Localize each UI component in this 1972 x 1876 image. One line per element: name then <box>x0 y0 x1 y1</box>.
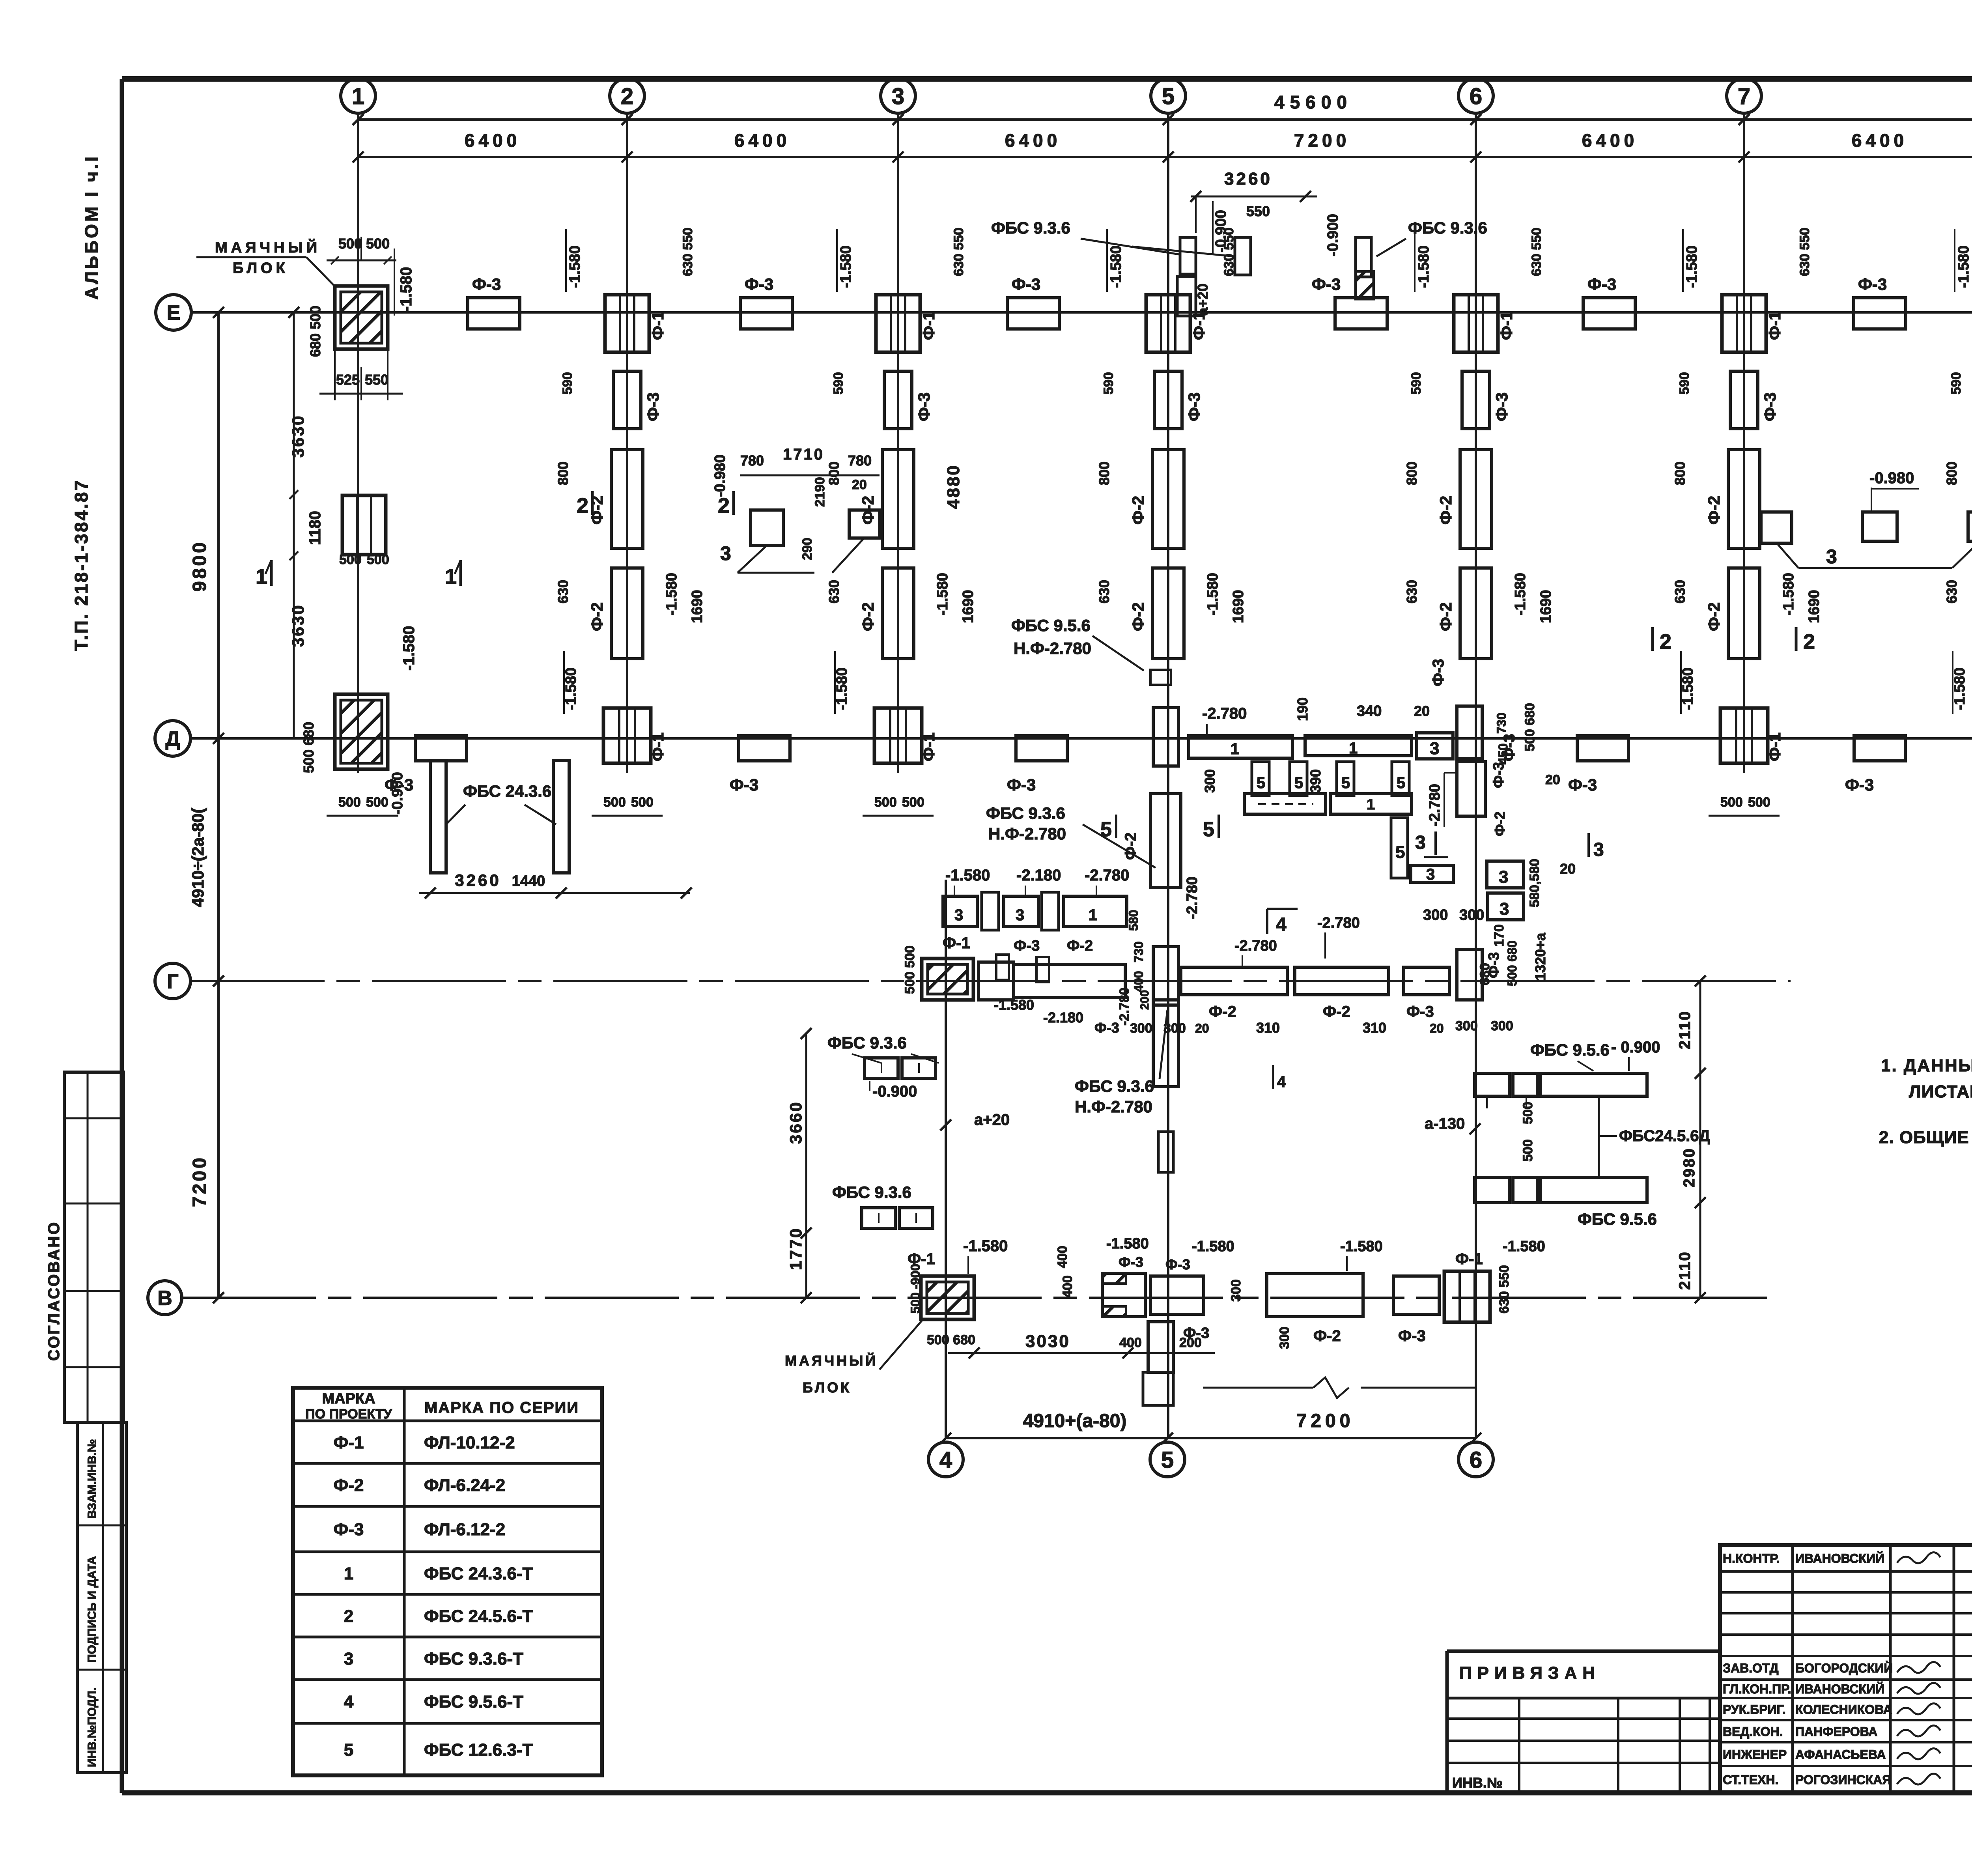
svg-text:730: 730 <box>1132 942 1146 962</box>
svg-text:2190: 2190 <box>812 477 827 507</box>
svg-text:а+20: а+20 <box>974 1111 1010 1129</box>
svg-text:200: 200 <box>1138 990 1151 1010</box>
svg-text:Ф-3: Ф-3 <box>1858 275 1887 293</box>
svg-text:3: 3 <box>1016 906 1024 924</box>
svg-text:-2.780: -2.780 <box>1234 938 1277 954</box>
svg-text:630 550: 630 550 <box>1529 228 1544 276</box>
svg-text:2: 2 <box>344 1607 353 1626</box>
svg-text:780: 780 <box>848 452 872 469</box>
svg-text:730: 730 <box>1494 713 1509 734</box>
svg-text:1: 1 <box>1089 906 1097 924</box>
svg-text:Ф-2: Ф-2 <box>588 602 606 631</box>
svg-text:390: 390 <box>1307 769 1324 793</box>
svg-text:190: 190 <box>1294 697 1311 721</box>
svg-text:-1.580: -1.580 <box>994 997 1034 1013</box>
svg-text:6400: 6400 <box>1852 130 1908 151</box>
svg-text:ИНВ.№: ИНВ.№ <box>1452 1775 1503 1791</box>
svg-text:Ф-3: Ф-3 <box>1165 1256 1190 1272</box>
svg-text:АЛЬБОМ I ч.I: АЛЬБОМ I ч.I <box>81 154 102 300</box>
svg-text:Ф-3: Ф-3 <box>1007 775 1036 794</box>
svg-text:- 0.900: - 0.900 <box>1611 1039 1660 1056</box>
svg-text:-1.580: -1.580 <box>834 667 850 710</box>
svg-text:310: 310 <box>1363 1020 1386 1036</box>
svg-text:590: 590 <box>1949 372 1964 394</box>
svg-text:Ф-1: Ф-1 <box>919 311 938 340</box>
svg-text:7200: 7200 <box>1294 130 1350 151</box>
svg-text:300: 300 <box>1202 769 1218 793</box>
svg-text:Ф-1: Ф-1 <box>1497 311 1516 340</box>
svg-text:а+20: а+20 <box>1195 284 1211 316</box>
svg-text:3260: 3260 <box>455 871 501 889</box>
svg-text:400: 400 <box>1055 1246 1070 1268</box>
svg-text:4910÷(2а-80(: 4910÷(2а-80( <box>189 808 207 907</box>
svg-text:300: 300 <box>1229 1279 1244 1302</box>
svg-text:ФБС 9.3.6: ФБС 9.3.6 <box>986 804 1065 822</box>
svg-text:Ф-3: Ф-3 <box>644 392 662 421</box>
svg-text:ФБС 9.5.6: ФБС 9.5.6 <box>1530 1041 1610 1059</box>
svg-text:450: 450 <box>1496 744 1510 764</box>
svg-text:500: 500 <box>631 795 654 810</box>
svg-text:ФБС 9.3.6-Т: ФБС 9.3.6-Т <box>424 1649 523 1669</box>
svg-text:-0.980: -0.980 <box>1869 469 1914 487</box>
svg-text:-2.780: -2.780 <box>1317 915 1360 931</box>
svg-text:300: 300 <box>1455 1018 1478 1033</box>
svg-text:20: 20 <box>1195 1021 1209 1035</box>
svg-text:Ф-3: Ф-3 <box>1587 275 1616 293</box>
svg-text:800: 800 <box>1672 462 1688 485</box>
svg-text:3: 3 <box>720 542 731 564</box>
svg-text:550: 550 <box>1246 203 1270 219</box>
svg-text:Ф-1: Ф-1 <box>919 732 938 761</box>
svg-text:Ф-3: Ф-3 <box>1761 392 1779 421</box>
svg-text:7: 7 <box>1738 84 1750 109</box>
svg-text:Ф-1: Ф-1 <box>1765 311 1784 340</box>
svg-text:550: 550 <box>365 372 388 388</box>
svg-text:-0.900: -0.900 <box>1325 214 1341 256</box>
svg-text:500 680: 500 680 <box>1522 703 1537 751</box>
svg-text:Н.Ф-2.780: Н.Ф-2.780 <box>1075 1097 1152 1116</box>
svg-text:400: 400 <box>1060 1275 1075 1298</box>
svg-text:300: 300 <box>1459 907 1484 923</box>
svg-text:Ф-2: Ф-2 <box>1209 1003 1236 1020</box>
svg-text:ЗАВ.ОТД: ЗАВ.ОТД <box>1723 1661 1779 1675</box>
svg-text:630: 630 <box>826 580 842 604</box>
svg-text:580,580: 580,580 <box>1527 859 1542 907</box>
svg-text:-2.780: -2.780 <box>1202 705 1247 722</box>
svg-text:-2.780: -2.780 <box>1117 988 1132 1026</box>
svg-text:Ф-3: Ф-3 <box>1012 275 1040 293</box>
svg-text:-1.580: -1.580 <box>1108 245 1124 288</box>
svg-text:5: 5 <box>1203 818 1214 841</box>
svg-text:МАЯЧНЫЙ: МАЯЧНЫЙ <box>215 238 321 256</box>
svg-text:20: 20 <box>852 477 867 492</box>
svg-text:800: 800 <box>1404 462 1420 485</box>
svg-text:ПАНФЕРОВА: ПАНФЕРОВА <box>1795 1725 1877 1739</box>
svg-text:РУК.БРИГ.: РУК.БРИГ. <box>1723 1702 1786 1717</box>
svg-text:1690: 1690 <box>960 590 977 623</box>
svg-text:ФБС 9.3.6: ФБС 9.3.6 <box>991 219 1070 237</box>
svg-text:500: 500 <box>1748 795 1770 810</box>
svg-text:БОГОРОДСКИЙ: БОГОРОДСКИЙ <box>1795 1661 1893 1675</box>
svg-text:Ф-3: Ф-3 <box>1490 762 1507 788</box>
svg-text:5: 5 <box>1294 774 1303 792</box>
svg-text:СОГЛАСОВАНО: СОГЛАСОВАНО <box>45 1221 63 1361</box>
svg-text:7200: 7200 <box>189 1155 210 1207</box>
svg-text:-1.580: -1.580 <box>398 267 415 312</box>
svg-text:3: 3 <box>1499 867 1508 887</box>
svg-text:1710: 1710 <box>783 446 824 463</box>
svg-text:Ф-2: Ф-2 <box>1436 602 1455 631</box>
svg-text:Ф-3: Ф-3 <box>915 392 933 421</box>
svg-text:6: 6 <box>1470 84 1482 109</box>
svg-text:-1.580: -1.580 <box>1192 1238 1234 1255</box>
svg-text:РОГОЗИНСКАЯ: РОГОЗИНСКАЯ <box>1795 1773 1891 1787</box>
svg-text:а-130: а-130 <box>1425 1115 1465 1132</box>
svg-text:290: 290 <box>800 538 815 560</box>
svg-text:800: 800 <box>1944 462 1960 485</box>
svg-text:3: 3 <box>1826 546 1837 568</box>
svg-text:-2.780: -2.780 <box>1427 784 1443 826</box>
svg-text:4: 4 <box>939 1447 952 1473</box>
svg-text:6: 6 <box>1470 1447 1482 1473</box>
svg-text:ИНЖЕНЕР: ИНЖЕНЕР <box>1723 1747 1787 1762</box>
svg-text:300: 300 <box>1163 1021 1186 1036</box>
svg-text:500: 500 <box>1720 795 1743 810</box>
svg-text:2: 2 <box>1803 630 1815 654</box>
svg-text:ФБС 24.3.6: ФБС 24.3.6 <box>463 782 551 800</box>
svg-text:45600: 45600 <box>1274 92 1352 112</box>
svg-text:-2.780: -2.780 <box>1184 876 1201 919</box>
svg-text:Е: Е <box>167 302 181 325</box>
svg-text:-900: -900 <box>908 1264 923 1289</box>
svg-text:5: 5 <box>1161 1447 1174 1473</box>
svg-text:4: 4 <box>1277 1073 1286 1091</box>
svg-text:590: 590 <box>831 372 846 394</box>
svg-text:3: 3 <box>1593 839 1604 860</box>
svg-text:-1.580: -1.580 <box>567 245 583 288</box>
svg-text:500: 500 <box>339 552 362 567</box>
svg-text:2980: 2980 <box>1681 1147 1698 1187</box>
svg-text:2110: 2110 <box>1676 1010 1694 1049</box>
svg-text:5: 5 <box>1395 843 1405 862</box>
svg-text:630: 630 <box>1404 580 1420 604</box>
svg-text:1690: 1690 <box>1806 590 1823 623</box>
svg-text:630 550: 630 550 <box>680 228 695 276</box>
svg-text:ФЛ-6.12-2: ФЛ-6.12-2 <box>424 1520 505 1539</box>
svg-text:Т.П. 218-1-384.87: Т.П. 218-1-384.87 <box>71 479 92 651</box>
svg-text:500 680: 500 680 <box>1505 940 1519 986</box>
svg-text:590: 590 <box>560 372 575 394</box>
svg-text:Ф-2: Ф-2 <box>1129 496 1147 525</box>
svg-text:Н.Ф-2.780: Н.Ф-2.780 <box>1014 639 1091 658</box>
svg-text:ФБС 24.3.6-Т: ФБС 24.3.6-Т <box>424 1564 533 1583</box>
svg-text:Ф-3: Ф-3 <box>1486 952 1502 978</box>
svg-text:590: 590 <box>1409 372 1424 394</box>
svg-text:5: 5 <box>344 1740 353 1760</box>
svg-text:Ф-3: Ф-3 <box>1845 775 1874 794</box>
svg-text:1: 1 <box>344 1564 353 1583</box>
svg-text:590: 590 <box>1101 372 1116 394</box>
svg-text:1770: 1770 <box>786 1227 805 1270</box>
svg-text:2: 2 <box>1660 630 1671 654</box>
svg-text:7200: 7200 <box>1296 1411 1354 1431</box>
svg-text:3: 3 <box>1426 866 1435 883</box>
svg-text:Ф-3: Ф-3 <box>745 275 773 293</box>
svg-text:1690: 1690 <box>1538 590 1554 623</box>
svg-text:200: 200 <box>1179 1335 1202 1350</box>
svg-text:500 500: 500 500 <box>902 945 917 994</box>
svg-text:5: 5 <box>1397 774 1405 792</box>
svg-text:Н.КОНТР.: Н.КОНТР. <box>1723 1551 1780 1566</box>
svg-text:Ф-2: Ф-2 <box>1323 1003 1350 1020</box>
svg-text:Ф-3: Ф-3 <box>730 775 758 794</box>
svg-text:-0.900: -0.900 <box>389 772 406 815</box>
svg-text:Ф-2: Ф-2 <box>1705 496 1723 525</box>
svg-text:-1.580: -1.580 <box>1416 245 1432 288</box>
svg-text:630 550: 630 550 <box>951 228 966 276</box>
svg-text:ФБС 9.5.6-Т: ФБС 9.5.6-Т <box>424 1692 523 1712</box>
svg-text:1. ДАННЫЙ ЛИСТ СМ СОВМЕСТНО С: 1. ДАННЫЙ ЛИСТ СМ СОВМЕСТНО С <box>1881 1055 1972 1075</box>
svg-text:Ф-3: Ф-3 <box>1119 1254 1143 1270</box>
svg-text:4910+(а-80): 4910+(а-80) <box>1023 1411 1127 1431</box>
svg-text:500: 500 <box>902 795 924 810</box>
svg-text:20: 20 <box>1414 703 1430 719</box>
svg-text:1: 1 <box>445 565 457 589</box>
svg-text:500: 500 <box>338 235 362 252</box>
svg-text:5: 5 <box>1257 774 1265 792</box>
svg-text:Ф-2: Ф-2 <box>1067 938 1093 954</box>
svg-text:400: 400 <box>1119 1335 1142 1350</box>
svg-text:Ф-2: Ф-2 <box>1436 496 1455 525</box>
svg-text:СТ.ТЕХН.: СТ.ТЕХН. <box>1723 1773 1778 1787</box>
svg-text:3660: 3660 <box>786 1101 805 1144</box>
svg-text:4: 4 <box>344 1692 354 1712</box>
svg-text:-1.580: -1.580 <box>945 867 990 884</box>
svg-text:В: В <box>157 1287 172 1310</box>
svg-text:3630: 3630 <box>289 415 307 458</box>
svg-text:Ф-3: Ф-3 <box>1185 392 1203 421</box>
svg-text:ФБС 9.3.6: ФБС 9.3.6 <box>827 1033 907 1052</box>
svg-text:ЛИСТАМИ АС-12÷АС-16;АС-38; АС-: ЛИСТАМИ АС-12÷АС-16;АС-38; АС-39. <box>1909 1082 1972 1101</box>
svg-text:500: 500 <box>908 1293 923 1314</box>
svg-text:2110: 2110 <box>1676 1251 1694 1290</box>
svg-text:Ф-2: Ф-2 <box>1705 602 1723 631</box>
svg-text:6400: 6400 <box>465 130 521 151</box>
svg-text:1: 1 <box>1349 740 1358 757</box>
svg-text:630 550: 630 550 <box>1497 1265 1512 1314</box>
svg-text:500 680: 500 680 <box>927 1332 975 1347</box>
svg-text:Ф-3: Ф-3 <box>1568 775 1597 794</box>
svg-text:МАРКА ПО СЕРИИ: МАРКА ПО СЕРИИ <box>424 1399 579 1416</box>
svg-text:Ф-3: Ф-3 <box>1492 392 1511 421</box>
svg-text:1: 1 <box>1367 796 1375 813</box>
svg-text:Д: Д <box>165 728 180 751</box>
svg-text:Ф-2: Ф-2 <box>859 602 877 631</box>
svg-text:-1.580: -1.580 <box>1512 573 1529 615</box>
svg-text:1320+а: 1320+а <box>1532 932 1548 981</box>
svg-text:Г: Г <box>167 970 178 993</box>
svg-text:-1.580: -1.580 <box>1340 1238 1383 1255</box>
svg-text:3: 3 <box>1430 739 1439 758</box>
svg-text:-1.580: -1.580 <box>963 1237 1008 1255</box>
svg-text:2. ОБЩИЕ ПРИМЕЧАНИЯ СМ НА ЛИ: 2. ОБЩИЕ ПРИМЕЧАНИЯ СМ НА ЛИСТЕ АС-12. <box>1879 1128 1972 1147</box>
svg-text:Ф-1: Ф-1 <box>1765 732 1784 761</box>
svg-text:500: 500 <box>874 795 897 810</box>
svg-text:20: 20 <box>1560 861 1576 877</box>
svg-text:-2.180: -2.180 <box>1016 867 1061 884</box>
svg-text:Ф-3: Ф-3 <box>1398 1327 1426 1345</box>
svg-text:-1.580: -1.580 <box>1951 667 1968 710</box>
svg-text:170: 170 <box>1492 924 1507 947</box>
svg-text:5: 5 <box>1341 774 1350 792</box>
svg-text:-2.180: -2.180 <box>1043 1009 1083 1026</box>
svg-text:ФБС 9.3.6: ФБС 9.3.6 <box>832 1183 911 1201</box>
svg-text:ФБС 9.3.6: ФБС 9.3.6 <box>1408 219 1487 237</box>
svg-text:680 500: 680 500 <box>307 306 323 357</box>
svg-text:630: 630 <box>1672 580 1688 604</box>
svg-text:500: 500 <box>366 795 388 810</box>
svg-text:4880: 4880 <box>944 464 963 509</box>
svg-text:630 550: 630 550 <box>1797 228 1812 276</box>
svg-text:780: 780 <box>740 452 764 469</box>
svg-text:-0.980: -0.980 <box>712 454 728 497</box>
svg-text:ГЛ.КОН.ПР.: ГЛ.КОН.ПР. <box>1723 1682 1791 1696</box>
svg-text:3: 3 <box>892 84 904 109</box>
svg-text:ФБС 24.5.6-Т: ФБС 24.5.6-Т <box>424 1607 533 1626</box>
svg-text:АФАНАСЬЕВА: АФАНАСЬЕВА <box>1795 1747 1886 1762</box>
svg-text:КОЛЕСНИКОВА: КОЛЕСНИКОВА <box>1795 1702 1892 1717</box>
svg-text:1: 1 <box>1231 740 1239 758</box>
svg-text:400: 400 <box>1132 971 1146 992</box>
svg-text:-1.580: -1.580 <box>563 667 579 710</box>
svg-text:500: 500 <box>366 235 390 252</box>
svg-text:-0.900: -0.900 <box>872 1083 917 1100</box>
svg-text:1690: 1690 <box>689 590 706 623</box>
svg-text:ИВАНОВСКИЙ: ИВАНОВСКИЙ <box>1795 1551 1884 1566</box>
svg-text:3: 3 <box>344 1649 353 1669</box>
svg-text:Ф-1: Ф-1 <box>648 732 667 761</box>
svg-text:Ф-3: Ф-3 <box>1406 1003 1434 1020</box>
svg-text:-1.580: -1.580 <box>838 245 854 288</box>
svg-text:-1.580: -1.580 <box>400 626 418 671</box>
svg-text:6400: 6400 <box>1005 130 1061 151</box>
svg-text:500: 500 <box>367 552 389 567</box>
svg-text:Н.Ф-2.780: Н.Ф-2.780 <box>988 824 1066 843</box>
svg-text:3: 3 <box>954 906 963 924</box>
svg-text:Ф-1: Ф-1 <box>943 934 970 952</box>
svg-text:-1.580: -1.580 <box>1680 667 1696 710</box>
svg-text:-1.580: -1.580 <box>934 573 951 615</box>
svg-text:3: 3 <box>1415 832 1426 853</box>
svg-text:300: 300 <box>1277 1327 1292 1349</box>
svg-text:800: 800 <box>1096 462 1112 485</box>
svg-text:4: 4 <box>1276 914 1287 935</box>
svg-text:Ф-3: Ф-3 <box>1094 1020 1119 1036</box>
svg-text:БЛОК: БЛОК <box>803 1379 852 1396</box>
svg-text:310: 310 <box>1256 1020 1280 1036</box>
svg-text:ФБС 9.5.6: ФБС 9.5.6 <box>1011 616 1091 635</box>
svg-text:Ф-2: Ф-2 <box>334 1476 364 1495</box>
svg-text:-1.580: -1.580 <box>1503 1238 1545 1255</box>
svg-text:БЛОК: БЛОК <box>233 260 289 277</box>
svg-text:3260: 3260 <box>1224 169 1272 189</box>
svg-text:-1.580: -1.580 <box>1106 1235 1149 1252</box>
svg-text:6400: 6400 <box>734 130 790 151</box>
svg-text:500 680: 500 680 <box>301 722 317 773</box>
svg-text:-0.900: -0.900 <box>1213 210 1229 252</box>
svg-text:20: 20 <box>1545 772 1560 787</box>
svg-text:ПОДПИСЬ И ДАТА: ПОДПИСЬ И ДАТА <box>86 1556 99 1663</box>
svg-text:-1.580: -1.580 <box>1955 245 1972 288</box>
svg-text:-2.780: -2.780 <box>1085 867 1129 884</box>
svg-text:1180: 1180 <box>306 511 324 545</box>
svg-text:2: 2 <box>621 84 633 109</box>
svg-text:500: 500 <box>1520 1139 1535 1162</box>
svg-text:580: 580 <box>1126 910 1141 931</box>
svg-text:ФБС 12.6.3-Т: ФБС 12.6.3-Т <box>424 1740 533 1760</box>
svg-text:500: 500 <box>603 795 626 810</box>
svg-text:-1.580: -1.580 <box>1684 245 1700 288</box>
svg-text:1: 1 <box>256 565 267 589</box>
svg-text:-1.580: -1.580 <box>1780 573 1797 615</box>
svg-text:Ф-1: Ф-1 <box>648 311 667 340</box>
svg-text:1690: 1690 <box>1230 590 1247 623</box>
svg-text:ФБС 9.3.6: ФБС 9.3.6 <box>1075 1077 1154 1095</box>
svg-text:Ф-3: Ф-3 <box>334 1520 364 1539</box>
svg-text:ФБС24.5.6Д: ФБС24.5.6Д <box>1619 1127 1710 1145</box>
svg-text:20: 20 <box>1430 1021 1444 1035</box>
svg-text:Ф-2: Ф-2 <box>1492 811 1508 836</box>
svg-text:630: 630 <box>1944 580 1960 604</box>
svg-text:Ф-3: Ф-3 <box>472 275 501 293</box>
svg-text:ФЛ-6.24-2: ФЛ-6.24-2 <box>424 1476 505 1495</box>
svg-text:Ф-3: Ф-3 <box>1312 275 1341 293</box>
svg-text:2: 2 <box>718 494 730 518</box>
svg-text:ФБС 9.5.6: ФБС 9.5.6 <box>1578 1210 1657 1228</box>
svg-text:1: 1 <box>352 84 364 109</box>
svg-text:300: 300 <box>1491 1018 1513 1033</box>
svg-text:Ф-2: Ф-2 <box>1129 602 1147 631</box>
svg-text:-1.580: -1.580 <box>663 573 680 615</box>
svg-text:Ф-2: Ф-2 <box>588 496 606 525</box>
svg-text:-1.580: -1.580 <box>1204 573 1221 615</box>
svg-text:500: 500 <box>338 795 361 810</box>
svg-text:3: 3 <box>1500 899 1509 919</box>
svg-text:Ф-2: Ф-2 <box>1313 1327 1341 1345</box>
svg-text:800: 800 <box>826 462 842 485</box>
svg-text:2: 2 <box>577 494 588 518</box>
svg-text:ИВАНОВСКИЙ: ИВАНОВСКИЙ <box>1795 1682 1884 1696</box>
svg-text:800: 800 <box>555 462 571 485</box>
svg-text:ВЗАМ.ИНВ.№: ВЗАМ.ИНВ.№ <box>86 1439 99 1519</box>
svg-text:ПРИВЯЗАН: ПРИВЯЗАН <box>1459 1663 1600 1683</box>
svg-text:6400: 6400 <box>1582 130 1638 151</box>
svg-text:Ф-3: Ф-3 <box>1430 659 1447 686</box>
svg-text:630: 630 <box>555 580 571 604</box>
svg-text:1440: 1440 <box>512 873 545 889</box>
svg-text:500: 500 <box>1520 1102 1535 1124</box>
svg-text:ФЛ-10.12-2: ФЛ-10.12-2 <box>424 1433 515 1452</box>
svg-text:Ф-1: Ф-1 <box>1455 1250 1483 1268</box>
svg-text:ИНВ.№ПОДЛ.: ИНВ.№ПОДЛ. <box>86 1687 99 1767</box>
svg-text:340: 340 <box>1357 703 1382 719</box>
svg-text:630: 630 <box>1096 580 1112 604</box>
svg-text:9800: 9800 <box>189 540 210 592</box>
svg-text:5: 5 <box>1162 84 1175 109</box>
svg-text:590: 590 <box>1677 372 1692 394</box>
svg-text:МАЯЧНЫЙ: МАЯЧНЫЙ <box>785 1352 878 1369</box>
svg-text:ВЕД.КОН.: ВЕД.КОН. <box>1723 1725 1783 1739</box>
